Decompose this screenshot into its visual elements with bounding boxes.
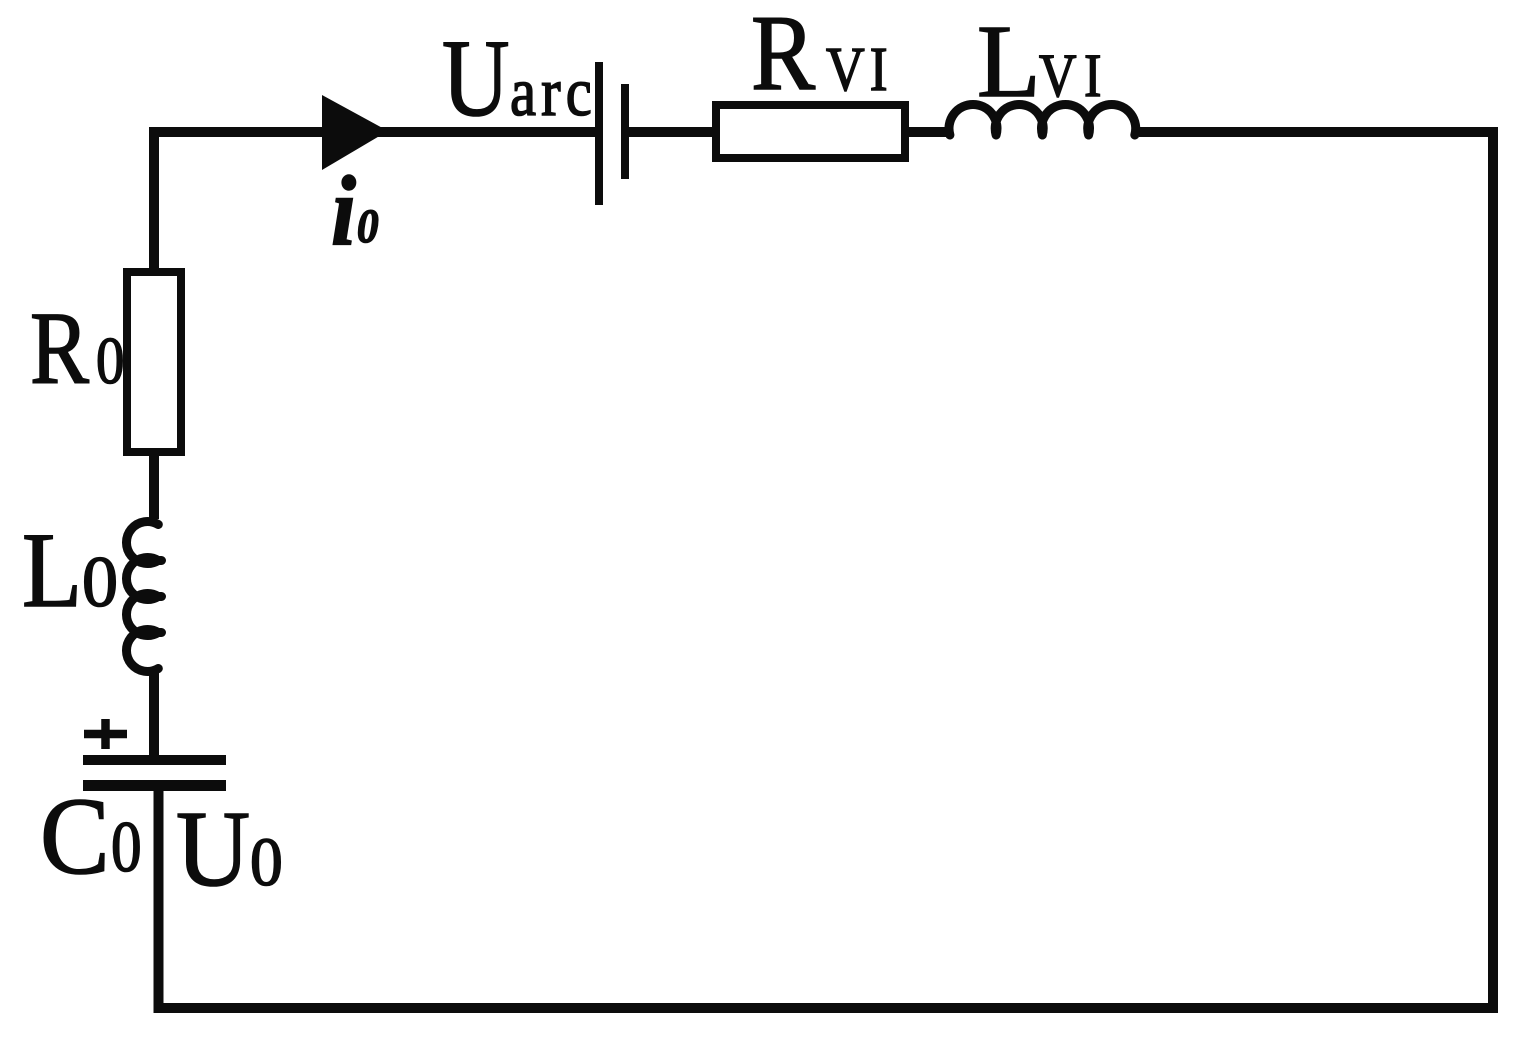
wire RVI to LVI bbox=[901, 127, 951, 137]
svg-text:R: R bbox=[751, 0, 816, 113]
wire left vertical (top segment, corner to R0) bbox=[149, 127, 159, 272]
svg-text:U: U bbox=[442, 18, 510, 140]
plus sign polarity mark bbox=[84, 719, 127, 749]
svg-text:U: U bbox=[176, 789, 250, 909]
arrowhead current direction bbox=[322, 95, 388, 170]
svg-text:arc: arc bbox=[510, 54, 597, 131]
svg-text:L: L bbox=[977, 4, 1041, 119]
resistor R0 bbox=[127, 272, 181, 452]
svg-text:0: 0 bbox=[96, 325, 124, 398]
svg-text:R: R bbox=[30, 290, 90, 405]
inductor L0 bbox=[126, 522, 161, 672]
arc gap electrode long bar bbox=[595, 62, 603, 205]
svg-text:0: 0 bbox=[250, 823, 283, 900]
svg-text:L: L bbox=[22, 511, 82, 630]
capacitor C0 bottom plate bbox=[83, 780, 226, 791]
svg-text:i: i bbox=[331, 155, 357, 266]
resistor RVI bbox=[716, 105, 905, 158]
inductor LVI bbox=[949, 104, 1136, 135]
wire C0 to bottom bbox=[154, 789, 164, 1013]
wire R0 to L0 bbox=[149, 448, 159, 519]
svg-text:0: 0 bbox=[82, 542, 118, 622]
svg-text:C: C bbox=[40, 776, 110, 898]
wire bottom horizontal bbox=[154, 1003, 1499, 1013]
svg-text:0: 0 bbox=[357, 199, 379, 253]
wire right vertical bbox=[1488, 127, 1498, 1013]
capacitor C0 top plate bbox=[83, 755, 226, 765]
wire L0 to C0 bbox=[149, 672, 159, 757]
arc gap electrode short bar bbox=[621, 84, 629, 179]
wire arc gap to RVI bbox=[629, 127, 720, 137]
svg-text:VI: VI bbox=[1039, 43, 1109, 110]
svg-text:0: 0 bbox=[111, 807, 142, 887]
wire top horizontal (corner to arc gap) bbox=[149, 127, 599, 137]
svg-text:VI: VI bbox=[826, 34, 893, 104]
wire LVI to right corner bbox=[1139, 127, 1498, 137]
